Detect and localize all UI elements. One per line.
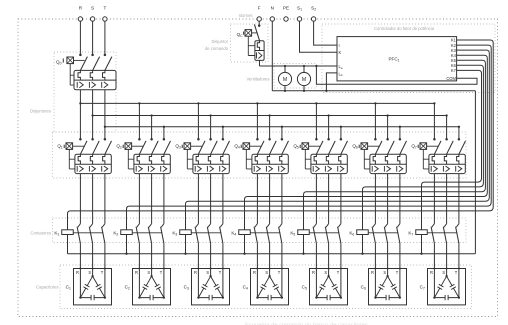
- wire phase S terminal to Q0: [92, 21, 94, 54]
- node bus tap branch 1: [79, 102, 81, 104]
- wire breaker Q5 outputs to contactor K5: [316, 174, 341, 224]
- breaker QC: [237, 24, 265, 60]
- wire Q0 output R to bus R: [79, 90, 81, 104]
- wire bus taps to breaker Q6: [375, 103, 400, 139]
- svg-text:Q1: Q1: [57, 144, 63, 150]
- breaker Q1: [57, 138, 111, 174]
- svg-text:Q7: Q7: [411, 144, 417, 150]
- wire F terminal to QC: [258, 21, 260, 25]
- motor M2 fan: [297, 65, 310, 92]
- wire contactor K6 to capacitor C6: [375, 243, 400, 268]
- capacitor C1 delta unit: [66, 268, 112, 305]
- svg-text:Disjuntor: Disjuntor: [211, 39, 228, 44]
- wire bus taps to breaker Q7: [434, 103, 459, 139]
- node coil K7 common junction: [420, 253, 422, 255]
- svg-text:Q2: Q2: [116, 144, 122, 150]
- svg-text:K: K: [339, 50, 342, 55]
- wire breaker Q2 outputs to contactor K2: [139, 174, 164, 224]
- svg-text:R: R: [79, 6, 83, 11]
- svg-text:K3: K3: [172, 230, 177, 236]
- wire PFC output K5 to contactor coil K5: [304, 60, 486, 230]
- dashed box contatores: [53, 218, 467, 243]
- capacitor C5 delta unit: [302, 268, 348, 305]
- node coil K3 common junction: [184, 253, 186, 255]
- svg-text:C3: C3: [184, 284, 189, 290]
- svg-text:S: S: [147, 270, 150, 275]
- svg-text:R: R: [430, 270, 433, 275]
- breaker Q6: [352, 138, 406, 174]
- svg-text:Q6: Q6: [352, 144, 358, 150]
- wire fan supply bus to pin La: [260, 65, 338, 67]
- node bus tap branch 3: [197, 102, 199, 104]
- svg-text:S: S: [88, 270, 91, 275]
- capacitor C3 delta unit: [184, 268, 230, 305]
- wire PFC output K7 to contactor coil K7: [422, 70, 482, 229]
- capacitor C4 delta unit: [243, 268, 289, 305]
- svg-text:Contatores: Contatores: [31, 231, 51, 236]
- wire neutral bus under motors: [272, 90, 475, 92]
- svg-text:Ventiladores: Ventiladores: [246, 76, 269, 81]
- capacitor C7 delta unit: [420, 268, 466, 305]
- svg-text:C7: C7: [420, 284, 425, 290]
- svg-text:T: T: [337, 270, 340, 275]
- svg-text:S2: S2: [311, 6, 316, 12]
- svg-text:Controlador do fator de potênc: Controlador do fator de potência: [374, 26, 435, 31]
- node bus tap branch 5: [315, 102, 317, 104]
- contactor K5: [290, 224, 341, 254]
- wire contactor K5 to capacitor C5: [316, 243, 341, 268]
- node bus tap branch 6: [374, 102, 376, 104]
- svg-text:S: S: [265, 270, 268, 275]
- wire phase R terminal to Q0: [79, 21, 81, 54]
- wire PFC output K2 to contactor coil K2: [127, 45, 492, 230]
- node coil K6 common junction: [361, 253, 363, 255]
- svg-text:Q4: Q4: [234, 144, 240, 150]
- wire S2 terminal to pin I: [314, 21, 337, 45]
- wire Q0 output S to bus S: [92, 90, 94, 116]
- wire breaker Q4 outputs to contactor K4: [257, 174, 282, 224]
- wire contactor K3 to capacitor C3: [198, 243, 223, 268]
- svg-text:S: S: [206, 270, 209, 275]
- svg-text:C6: C6: [361, 284, 366, 290]
- wire contactor K7 to capacitor C7: [434, 243, 459, 268]
- wire neutral to pin Lb: [326, 73, 337, 91]
- dashed box disjuntor de comando: [231, 24, 269, 62]
- svg-text:T: T: [101, 270, 104, 275]
- contactor K7: [408, 224, 459, 254]
- op... PFC controller U1 box: [337, 37, 457, 81]
- svg-text:S: S: [383, 270, 386, 275]
- svg-text:K7: K7: [408, 230, 413, 236]
- svg-text:K6: K6: [349, 230, 354, 236]
- wire bus taps to breaker Q2: [139, 103, 164, 139]
- wire phase T terminal to Q0: [104, 21, 106, 54]
- svg-text:K1: K1: [54, 230, 59, 236]
- wire bus taps to breaker Q3: [198, 103, 223, 139]
- svg-text:M: M: [283, 77, 287, 83]
- dashed box ventiladores: [274, 64, 317, 89]
- svg-text:C1: C1: [66, 284, 71, 290]
- node coil K2 common junction: [125, 253, 127, 255]
- contactor K2: [113, 224, 164, 254]
- svg-text:F: F: [258, 6, 261, 11]
- wire COM pin to fan bus: [316, 66, 477, 84]
- svg-text:K4: K4: [231, 230, 236, 236]
- svg-text:C5: C5: [302, 284, 307, 290]
- svg-text:S: S: [442, 270, 445, 275]
- svg-text:C4: C4: [243, 284, 248, 290]
- wire contactor K2 to capacitor C2: [139, 243, 164, 268]
- dashed box disjuntor Q0: [54, 52, 116, 132]
- wire PFC output K6 to contactor coil K6: [363, 65, 484, 230]
- svg-text:R: R: [253, 270, 256, 275]
- svg-text:N: N: [271, 6, 274, 11]
- svg-text:T: T: [160, 270, 163, 275]
- svg-text:R: R: [371, 270, 374, 275]
- node bus tap branch 2: [138, 102, 140, 104]
- wire bus taps to breaker Q4: [257, 103, 282, 139]
- wire bus taps to breaker Q1: [80, 103, 105, 139]
- wire S1 terminal to pin K: [300, 21, 338, 52]
- svg-text:R: R: [135, 270, 138, 275]
- wire coil common bus: [68, 253, 476, 255]
- breaker Q0: [56, 54, 116, 90]
- svg-text:de comando: de comando: [205, 46, 229, 51]
- svg-text:Capacitores: Capacitores: [36, 284, 58, 289]
- svg-text:S: S: [91, 6, 94, 11]
- svg-text:S1: S1: [297, 6, 302, 12]
- svg-text:Q3: Q3: [175, 144, 181, 150]
- wire PFC output K1 to contactor coil K1: [68, 40, 494, 230]
- svg-text:Q0: Q0: [56, 59, 62, 65]
- wire Q0 output T to bus T: [104, 90, 106, 127]
- svg-text:T: T: [278, 270, 281, 275]
- svg-text:K7: K7: [451, 68, 457, 73]
- svg-text:C2: C2: [125, 284, 130, 290]
- breaker Q3: [175, 138, 229, 174]
- wire QC output to fan bus: [259, 60, 261, 66]
- svg-text:Q5: Q5: [293, 144, 299, 150]
- dashed box disjuntores row: [53, 132, 467, 178]
- svg-text:COM: COM: [446, 76, 456, 81]
- svg-text:T: T: [455, 270, 458, 275]
- motor M1 fan: [278, 65, 291, 92]
- wire N terminal down: [271, 21, 273, 91]
- wire breaker Q6 outputs to contactor K6: [375, 174, 400, 224]
- svg-text:T: T: [219, 270, 222, 275]
- node bus tap branch 7: [433, 102, 435, 104]
- dashed box controlador: [322, 24, 495, 93]
- svg-text:S: S: [324, 270, 327, 275]
- breaker Q5: [293, 138, 347, 174]
- wire bus taps to breaker Q5: [316, 103, 341, 139]
- svg-text:K2: K2: [113, 230, 118, 236]
- contactor K6: [349, 224, 400, 254]
- node coil K4 common junction: [243, 253, 245, 255]
- svg-text:QC: QC: [237, 32, 244, 38]
- breaker Q4: [234, 138, 288, 174]
- node coil K5 common junction: [302, 253, 304, 255]
- svg-text:PE: PE: [283, 6, 289, 11]
- dashed box capacitores: [60, 265, 472, 309]
- node bus tap branch 4: [256, 102, 258, 104]
- svg-text:I: I: [339, 43, 340, 48]
- svg-text:M: M: [302, 77, 306, 83]
- wire neutral down to coil common bus: [474, 91, 476, 254]
- svg-text:K5: K5: [290, 230, 295, 236]
- svg-text:T: T: [103, 6, 106, 11]
- svg-text:Disjuntores: Disjuntores: [30, 108, 51, 113]
- svg-text:Bornes: Bornes: [239, 13, 252, 18]
- contactor K3: [172, 224, 223, 254]
- wire breaker Q1 outputs to contactor K1: [80, 174, 105, 224]
- svg-text:R: R: [76, 270, 79, 275]
- svg-text:T: T: [396, 270, 399, 275]
- contactor K4: [231, 224, 282, 254]
- breaker Q7: [411, 138, 465, 174]
- breaker Q2: [116, 138, 170, 174]
- capacitor C6 delta unit: [361, 268, 407, 305]
- bus R: [80, 102, 434, 104]
- wire contactor K1 to capacitor C1: [80, 243, 105, 268]
- bus T: [105, 126, 459, 128]
- wire PFC output K3 to contactor coil K3: [186, 50, 490, 230]
- wire breaker Q7 outputs to contactor K7: [434, 174, 459, 224]
- capacitor C2 delta unit: [125, 268, 171, 305]
- wire PFC output K4 to contactor coil K4: [245, 55, 488, 230]
- svg-text:R: R: [194, 270, 197, 275]
- svg-text:R: R: [312, 270, 315, 275]
- bus S: [93, 115, 447, 117]
- wire contactor K4 to capacitor C4: [257, 243, 282, 268]
- wire breaker Q3 outputs to contactor K3: [198, 174, 223, 224]
- contactor K1: [54, 224, 105, 254]
